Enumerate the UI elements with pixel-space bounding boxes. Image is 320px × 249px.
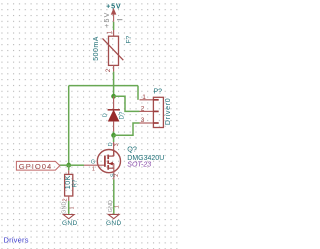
wire left branch down — [68, 86, 70, 166]
wire resistor to GND left — [68, 201, 70, 215]
wire down to conn pin 1 — [137, 86, 139, 100]
ground left — [62, 215, 78, 227]
svg-text:3: 3 — [114, 143, 120, 146]
MOSFET channel bars — [107, 155, 109, 160]
svg-text:F?: F? — [126, 35, 133, 43]
svg-text:GND: GND — [108, 200, 114, 212]
connector P? pin 3 — [140, 122, 154, 124]
diode D? cathode bar — [108, 109, 120, 111]
svg-text:SOT-23: SOT-23 — [127, 161, 151, 168]
connector P? body — [153, 97, 163, 127]
MOSFET bulk arrow — [109, 163, 114, 165]
MOSFET drain pin — [113, 142, 115, 156]
MOSFET source lead — [108, 167, 114, 169]
svg-text:1: 1 — [142, 94, 146, 101]
svg-text:P?: P? — [154, 88, 163, 95]
svg-text:GND: GND — [61, 202, 67, 214]
ground right — [106, 214, 122, 227]
fuse F? pin 2 — [113, 65, 115, 71]
wire +5V to fuse — [113, 22, 115, 30]
global label GPIO04 — [16, 161, 59, 170]
wire junction C to gate — [69, 164, 84, 166]
svg-text:D: D — [108, 142, 114, 146]
MOSFET Q? body circle — [97, 150, 120, 173]
wire junction B to conn pin 3 — [114, 123, 140, 135]
svg-text:R?: R? — [72, 179, 78, 187]
svg-text:2: 2 — [141, 106, 145, 113]
svg-text:GND: GND — [106, 220, 122, 227]
fuse F? pin 1 — [113, 30, 115, 36]
wire horizontal GPIO net (label to conn pin 1) — [69, 85, 138, 87]
svg-text:GPIO04: GPIO04 — [19, 162, 52, 171]
svg-text:D?: D? — [119, 111, 125, 119]
svg-text:Driver0: Driver0 — [165, 98, 172, 125]
connector P? pin 1 — [140, 99, 154, 101]
svg-text:10K: 10K — [63, 175, 72, 189]
power symbol +5V — [104, 2, 122, 28]
MOSFET gate pin — [84, 164, 105, 166]
svg-text:500mA: 500mA — [93, 36, 100, 61]
svg-text:D: D — [103, 113, 109, 117]
wire junction C to resistor — [68, 165, 70, 170]
wire junction A to conn pin 2 — [114, 96, 140, 111]
junction A — [111, 94, 116, 99]
connector P? pin 2 — [140, 110, 154, 112]
diode D? pin 2 (anode down) — [113, 121, 115, 131]
MOSFET source pin — [113, 164, 115, 180]
fuse F? body — [109, 36, 119, 65]
MOSFET gate bar — [104, 156, 106, 167]
svg-text:1: 1 — [69, 206, 75, 209]
svg-text:Drivers: Drivers — [4, 235, 29, 244]
junction C (gate net) — [66, 163, 71, 168]
svg-text:1: 1 — [92, 167, 95, 173]
diode D? triangle — [108, 110, 119, 121]
svg-text:2: 2 — [62, 198, 68, 201]
connector pin stubs — [153, 99, 158, 101]
svg-text:Q?: Q? — [127, 145, 137, 154]
svg-text:3: 3 — [141, 117, 145, 124]
resistor R? body — [65, 174, 73, 196]
resistor R? pin 1 — [68, 170, 70, 174]
wire diode to junction B — [113, 132, 115, 136]
junction B — [111, 133, 116, 138]
svg-text:GND: GND — [62, 220, 78, 227]
wire junction B to MOSFET drain — [113, 135, 115, 142]
wire MOSFET source to GND — [113, 179, 115, 214]
wire fuse to junction A — [113, 72, 115, 97]
wire label to junction C — [60, 164, 69, 166]
svg-text:+5V: +5V — [104, 11, 111, 27]
svg-text:1: 1 — [114, 205, 120, 208]
svg-text:2: 2 — [114, 174, 120, 177]
diode D? pin 1 (cathode up) — [113, 96, 115, 110]
MOSFET drain lead — [108, 155, 114, 157]
resistor pin 2 — [68, 196, 70, 201]
svg-text:G: G — [91, 159, 95, 165]
